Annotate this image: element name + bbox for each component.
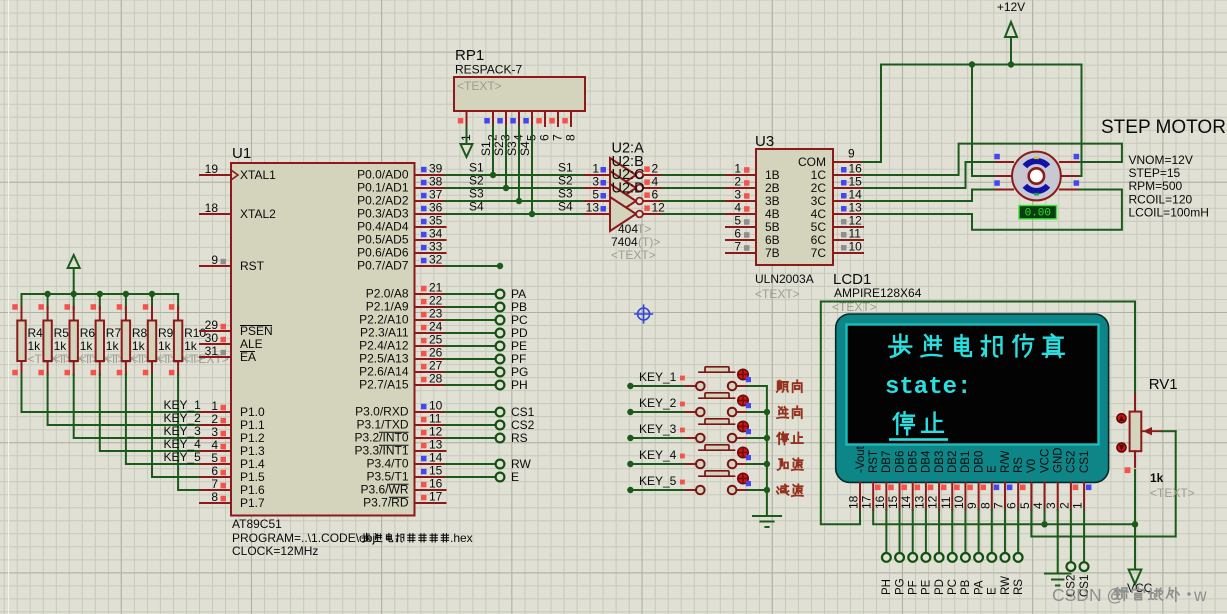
svg-text:3B: 3B: [765, 194, 780, 208]
svg-text:R5: R5: [54, 326, 70, 340]
svg-text:PE: PE: [921, 579, 933, 595]
svg-text:14: 14: [899, 495, 913, 509]
svg-text:PA: PA: [973, 580, 985, 595]
U1 pin 13 P3.3/INT1: [415, 450, 446, 452]
svg-text:6: 6: [538, 134, 552, 141]
svg-text:6: 6: [652, 188, 659, 202]
mcu U1 AT89C51 body: [231, 163, 415, 516]
svg-text:P1.5: P1.5: [240, 470, 265, 484]
RP1 pin 2: [492, 111, 494, 126]
terminal PF: [446, 358, 495, 360]
junction: [123, 291, 129, 297]
svg-text:38: 38: [429, 175, 443, 189]
svg-text:37: 37: [429, 188, 443, 202]
svg-text:P2.6/A14: P2.6/A14: [359, 365, 409, 379]
U1 pin 9 RST: [200, 265, 231, 267]
resistor R10 1k: [177, 294, 179, 309]
U1 pin 23 P2.2/A10: [415, 319, 446, 321]
svg-text:16: 16: [429, 477, 443, 491]
U3 pin 3 3B: [726, 200, 756, 202]
terminal PC: [446, 319, 495, 321]
resistor R6 1k: [73, 294, 75, 309]
U1 pin 17 P3.7/RD: [415, 502, 446, 504]
key label chinese 2: [777, 407, 788, 418]
wire S1 U1 to U2: [446, 174, 586, 176]
svg-text:18: 18: [847, 495, 861, 509]
svg-text:1: 1: [592, 162, 599, 176]
svg-text:11: 11: [429, 412, 442, 426]
svg-text:7: 7: [734, 240, 741, 254]
svg-text:AMPIRE128X64: AMPIRE128X64: [834, 286, 922, 300]
motor top pole (blue): [1023, 158, 1051, 168]
svg-text:2: 2: [1057, 502, 1071, 509]
terminal PE lcd: [925, 510, 927, 553]
svg-text:39: 39: [429, 162, 443, 176]
svg-text:P2.1/A9: P2.1/A9: [366, 300, 409, 314]
svg-text:5: 5: [592, 188, 599, 202]
svg-text:19: 19: [205, 162, 219, 176]
U3 pin 11 6C: [833, 239, 863, 241]
ground symbol keys: [753, 515, 781, 517]
svg-text:4B: 4B: [765, 207, 780, 221]
svg-text:P0.2/AD2: P0.2/AD2: [357, 194, 409, 208]
wire R9 to key row: [152, 374, 200, 477]
svg-text:R4: R4: [28, 326, 44, 340]
svg-text:P0.1/AD1: P0.1/AD1: [357, 181, 409, 195]
svg-text:15: 15: [886, 495, 900, 509]
wire U2 out to U3 4B: [662, 213, 726, 215]
U1 pin 6 P1.5: [200, 476, 231, 478]
RP1 pin 4: [518, 111, 520, 126]
wire 3C to motor left-lower coil: [863, 190, 996, 202]
svg-text:6: 6: [211, 464, 218, 478]
svg-text:3: 3: [211, 425, 218, 439]
U1 pin 36 P0.3/AD3: [415, 213, 446, 215]
svg-text:12: 12: [849, 214, 863, 228]
wire KEY_2 to common: [747, 411, 767, 413]
svg-text:1k: 1k: [132, 339, 146, 353]
svg-text:<TEXT>: <TEXT>: [457, 79, 502, 93]
U3 pin 13 4C: [833, 213, 863, 215]
svg-text:22: 22: [429, 294, 443, 308]
svg-text:18: 18: [205, 201, 219, 215]
svg-text:12: 12: [429, 425, 443, 439]
terminal PA lcd: [978, 510, 980, 553]
svg-text:P2.3/A11: P2.3/A11: [360, 326, 409, 340]
junction key: [764, 409, 770, 415]
inverter U2:D 7404: [585, 213, 610, 215]
svg-text:w: w: [1193, 585, 1207, 605]
svg-text:PD: PD: [511, 326, 528, 340]
U1 pin 35 P0.4/AD4: [415, 226, 446, 228]
lcd screen frame: [847, 325, 1099, 445]
svg-text:RW: RW: [1000, 576, 1012, 595]
svg-text:PF: PF: [511, 352, 526, 366]
U1 pin 2 P1.1: [200, 424, 231, 426]
svg-text:PC: PC: [511, 313, 528, 327]
svg-text:PB: PB: [511, 300, 527, 314]
svg-text:15: 15: [849, 175, 863, 189]
U1 pin 11 P3.1/TXD: [415, 424, 446, 426]
RP1 pin 1: [466, 111, 468, 126]
wire U2 out to U3 2B: [662, 187, 726, 189]
terminal RS: [446, 437, 495, 439]
svg-text:1k: 1k: [106, 339, 120, 353]
motor pin stubs: [996, 161, 1013, 163]
inverter U2:B 7404: [585, 187, 610, 189]
U1 pin 12 P3.2/INT0: [415, 437, 446, 439]
svg-text:KEY_1: KEY_1: [164, 398, 202, 412]
resistor R4 1k: [21, 294, 23, 309]
U1 pin 26 P2.5/A13: [415, 358, 446, 360]
junction S2: [503, 185, 509, 191]
svg-text:CLOCK=12MHz: CLOCK=12MHz: [232, 544, 318, 558]
svg-text:0.00: 0.00: [1025, 208, 1051, 220]
wire RST VCC net horizontal: [873, 510, 1135, 524]
svg-text:KEY_2: KEY_2: [164, 411, 202, 425]
U3 pin 5 5B: [726, 226, 756, 228]
wire S4 U1 to U2: [446, 213, 586, 215]
svg-text:V0: V0: [1026, 459, 1038, 473]
svg-text:27: 27: [429, 359, 443, 373]
svg-text:5: 5: [1018, 502, 1032, 509]
button KEY_1: [630, 385, 687, 387]
svg-text:PSEN: PSEN: [240, 324, 273, 338]
svg-text:E: E: [987, 587, 999, 595]
U3 pin 4 4B: [726, 213, 756, 215]
svg-text:DB7: DB7: [881, 451, 893, 473]
terminal CS1 lcd: [1083, 510, 1085, 562]
junction S4: [529, 211, 535, 217]
RP1 pin 8: [570, 111, 572, 126]
wire 4C to motor right-lower coil: [863, 190, 1122, 230]
svg-text:U1: U1: [232, 145, 251, 162]
wire RP1 pin5 riser S4: [531, 126, 533, 214]
wire rail to motor left-center: [972, 65, 996, 177]
svg-text:KEY_4: KEY_4: [639, 448, 677, 462]
resistor R9 1k: [151, 294, 153, 309]
U1 pin 34 P0.5/AD5: [415, 239, 446, 241]
svg-text:S4: S4: [518, 141, 532, 156]
svg-text:T>: T>: [637, 222, 651, 236]
svg-text:S2: S2: [492, 141, 506, 156]
junction: [71, 291, 77, 297]
svg-text:21: 21: [429, 281, 443, 295]
svg-text:6C: 6C: [811, 233, 827, 247]
terminal RW: [446, 463, 495, 465]
svg-text:P0.4/AD4: P0.4/AD4: [357, 220, 409, 234]
svg-text:1k: 1k: [80, 339, 94, 353]
svg-text:RS: RS: [1013, 579, 1025, 595]
wire resistor top bus: [22, 293, 179, 295]
svg-text:PC: PC: [947, 579, 959, 595]
svg-text:29: 29: [205, 318, 219, 332]
wire KEY_3 to common: [747, 437, 767, 439]
svg-text:4: 4: [652, 175, 659, 189]
motor corner squares: [994, 154, 1000, 160]
svg-text:KEY_5: KEY_5: [164, 450, 202, 464]
svg-text:PD: PD: [934, 579, 946, 595]
wire U2 out to U3 1B: [662, 174, 726, 176]
svg-text:4: 4: [734, 201, 741, 215]
U3 pin 2 2B: [726, 187, 756, 189]
respack RP1 body: [454, 77, 585, 111]
key label chinese 5: [777, 485, 789, 495]
svg-text:XTAL2: XTAL2: [240, 207, 276, 221]
svg-text:RS: RS: [1013, 457, 1025, 473]
svg-text:3: 3: [1044, 502, 1058, 509]
svg-text:12: 12: [926, 495, 940, 509]
junction key: [764, 461, 770, 467]
wire R5 to key row: [48, 374, 200, 425]
ground symbol LCD: [1045, 573, 1070, 575]
svg-text:ULN2003A: ULN2003A: [755, 272, 814, 286]
U1 pin 14 P3.4/T0: [415, 463, 446, 465]
wire S2 U1 to U2: [446, 187, 586, 189]
svg-text:AT89C51: AT89C51: [232, 517, 282, 531]
svg-text:16: 16: [873, 495, 887, 509]
RP1 pin 3: [505, 111, 507, 126]
button KEY_3: [630, 437, 687, 439]
svg-text:33: 33: [429, 240, 443, 254]
resistor R5 1k: [47, 294, 49, 309]
svg-text:8: 8: [564, 134, 578, 141]
svg-text:P0.7/AD7: P0.7/AD7: [357, 259, 409, 273]
wire COM to rail: [863, 65, 881, 163]
svg-text:23: 23: [429, 307, 443, 321]
U3 pin 1 1B: [726, 174, 756, 176]
junction VCC pin4: [1041, 521, 1047, 527]
svg-text:KEY_5: KEY_5: [639, 474, 677, 488]
svg-text:S4: S4: [469, 200, 484, 214]
svg-text:7: 7: [551, 134, 565, 141]
svg-text:2: 2: [734, 175, 741, 189]
svg-text:10: 10: [849, 240, 863, 254]
svg-text:P1.2: P1.2: [240, 431, 265, 445]
svg-text:VNOM=12V: VNOM=12V: [1129, 153, 1193, 167]
svg-text:1k: 1k: [184, 339, 198, 353]
svg-text:EA: EA: [240, 350, 256, 364]
U1 pin 25 P2.4/A12: [415, 345, 446, 347]
svg-text:1C: 1C: [811, 168, 827, 182]
U1 pin 15 P3.5/T1: [415, 476, 446, 478]
svg-text:P3.1/TXD: P3.1/TXD: [356, 418, 408, 432]
U3 pin 9 COM: [833, 161, 863, 163]
svg-text:32: 32: [429, 253, 443, 267]
svg-text:26: 26: [429, 346, 443, 360]
svg-text:1: 1: [1071, 502, 1085, 509]
svg-text:KEY_1: KEY_1: [639, 370, 677, 384]
svg-text:10: 10: [429, 399, 443, 413]
svg-text:P1.0: P1.0: [240, 405, 265, 419]
junction S3: [516, 198, 522, 204]
junction: [97, 291, 103, 297]
wire R7 to key row: [100, 374, 200, 451]
origin marker: [634, 304, 653, 323]
svg-text:RV1: RV1: [1149, 376, 1178, 393]
svg-text:R9: R9: [158, 326, 174, 340]
junction rail 972: [969, 61, 975, 67]
svg-text:RST: RST: [868, 450, 880, 473]
wire R6 to key row: [74, 374, 200, 438]
U1 pin 7 P1.6: [200, 489, 231, 491]
svg-text:.hex: .hex: [450, 531, 473, 545]
svg-text:5: 5: [211, 451, 218, 465]
svg-text:7: 7: [991, 502, 1005, 509]
terminal PC lcd: [951, 510, 953, 553]
key label chinese 3: [777, 432, 788, 444]
RV1 decrement button: [1117, 443, 1126, 452]
wire S3 U1 to U2: [446, 200, 586, 202]
button KEY_4: [630, 463, 687, 465]
U1 pin 29 PSEN: [200, 330, 231, 332]
motor bottom indicator: [1034, 193, 1039, 196]
U1 pin 28 P2.7/A15: [415, 384, 446, 386]
svg-text:XTAL1: XTAL1: [240, 168, 276, 182]
terminal PD lcd: [938, 510, 940, 553]
svg-text:35: 35: [429, 214, 443, 228]
svg-text:31: 31: [205, 344, 219, 358]
terminal PG lcd: [899, 510, 901, 553]
svg-text:34: 34: [429, 227, 443, 241]
svg-text:24: 24: [429, 320, 443, 334]
svg-text:KEY_4: KEY_4: [164, 437, 202, 451]
svg-text:10: 10: [952, 495, 966, 509]
svg-text:P2.7/A15: P2.7/A15: [359, 378, 409, 392]
wire RP1 pin2 riser S1: [492, 126, 494, 175]
terminal PE: [446, 345, 495, 347]
svg-text:<TEXT>: <TEXT>: [1150, 486, 1195, 500]
wire U2 out to U3 3B: [662, 200, 726, 202]
RP1 pin 7: [557, 111, 559, 126]
svg-text:P1.7: P1.7: [240, 496, 265, 510]
svg-text:COM: COM: [798, 155, 826, 169]
U1 pin 31 EA: [200, 356, 231, 358]
svg-text:3C: 3C: [811, 194, 827, 208]
svg-text:1k: 1k: [54, 339, 68, 353]
svg-text:DB3: DB3: [934, 451, 946, 473]
svg-text:1: 1: [211, 399, 218, 413]
lcd screen text line1: [889, 335, 911, 357]
U1 pin 33 P0.6/AD6: [415, 252, 446, 254]
svg-text:3: 3: [734, 188, 741, 202]
svg-text:STEP MOTOR: STEP MOTOR: [1101, 117, 1226, 138]
svg-text:PF: PF: [908, 580, 920, 595]
svg-text:-Vout: -Vout: [855, 445, 867, 473]
svg-text:9: 9: [965, 502, 979, 509]
inverter U2:C 7404: [585, 200, 610, 202]
motor top indicator: [1034, 157, 1039, 160]
terminal PD: [446, 332, 495, 334]
svg-text:CS1: CS1: [511, 405, 535, 419]
resistor R8 1k: [125, 294, 127, 309]
svg-text:P2.4/A12: P2.4/A12: [359, 339, 409, 353]
U1 pin 10 P3.0/RXD: [415, 411, 446, 413]
lcd body: [836, 314, 1109, 482]
svg-text:DB0: DB0: [973, 451, 985, 473]
svg-text:1k: 1k: [1150, 471, 1164, 485]
svg-text:E: E: [511, 470, 519, 484]
svg-text:RS: RS: [511, 431, 528, 445]
U1 pin 1 P1.0: [200, 411, 231, 413]
wire KEY_5 to common: [747, 489, 767, 491]
terminal CS1: [446, 411, 495, 413]
svg-text:2B: 2B: [765, 181, 780, 195]
svg-text:5B: 5B: [765, 220, 780, 234]
svg-text:404: 404: [618, 222, 638, 236]
U1 pin 3 P1.2: [200, 437, 231, 439]
wire KEY_1 to common: [747, 385, 767, 387]
svg-text:S3: S3: [505, 141, 519, 156]
U3 pin 15 2C: [833, 187, 863, 189]
svg-text:P0.0/AD0: P0.0/AD0: [357, 168, 409, 182]
svg-text:R/W: R/W: [1000, 451, 1012, 474]
svg-text:U3: U3: [755, 133, 774, 150]
svg-text:RPM=500: RPM=500: [1129, 179, 1183, 193]
svg-text:2: 2: [211, 412, 218, 426]
svg-text:S1: S1: [469, 161, 484, 175]
svg-text:+12V: +12V: [997, 0, 1025, 14]
lcd screen text line3: [894, 412, 914, 434]
svg-text:P1.6: P1.6: [240, 483, 265, 497]
U1 pin 16 P3.6/WR: [415, 489, 446, 491]
svg-text:8: 8: [211, 490, 218, 504]
svg-text:S3: S3: [469, 187, 484, 201]
key label chinese 4: [778, 459, 788, 470]
svg-text:9: 9: [211, 253, 218, 267]
svg-text:17: 17: [429, 490, 443, 504]
terminal PG: [446, 371, 495, 373]
U3 pin 12 5C: [833, 226, 863, 228]
svg-text:S2: S2: [558, 174, 573, 188]
wire RP1 pin4 riser S3: [518, 126, 520, 201]
key label chinese 1: [777, 381, 788, 392]
svg-text:13: 13: [849, 201, 863, 215]
ground arrow under RP1 pin1: [466, 126, 468, 144]
svg-text:P3.4/T0: P3.4/T0: [366, 457, 408, 471]
wire rail to motor right-center: [1062, 65, 1082, 177]
svg-text:R8: R8: [132, 326, 148, 340]
svg-text:8: 8: [978, 502, 992, 509]
svg-text:RCOIL=120: RCOIL=120: [1129, 192, 1193, 206]
svg-text:16: 16: [849, 162, 863, 176]
U1 pin 4 P1.3: [200, 450, 231, 452]
RP1 pin 6: [544, 111, 546, 126]
wire R8 to key row: [126, 374, 200, 464]
svg-text:28: 28: [429, 372, 443, 386]
power symbol VCC down: [1134, 524, 1136, 569]
svg-text:S3: S3: [558, 187, 573, 201]
terminal CS2: [446, 424, 495, 426]
svg-text:17: 17: [860, 495, 874, 509]
svg-text:PB: PB: [960, 579, 972, 595]
button KEY_5: [630, 489, 687, 491]
svg-text:E: E: [987, 465, 999, 473]
svg-text:P1.4: P1.4: [240, 457, 265, 471]
terminal PF lcd: [912, 510, 914, 553]
svg-text:DB1: DB1: [960, 451, 972, 473]
terminal RW lcd: [1004, 510, 1006, 553]
wire 2C to motor left-upper coil: [863, 162, 996, 188]
svg-text:11: 11: [939, 496, 953, 509]
terminal PB lcd: [964, 510, 966, 553]
svg-text:15: 15: [429, 464, 443, 478]
motor bottom pole (blue): [1023, 184, 1051, 194]
svg-text:DB2: DB2: [947, 451, 959, 473]
U1 pin 21 P2.0/A8: [415, 293, 446, 295]
wire VCC pin to net: [1044, 510, 1046, 524]
svg-text:S1: S1: [558, 161, 573, 175]
